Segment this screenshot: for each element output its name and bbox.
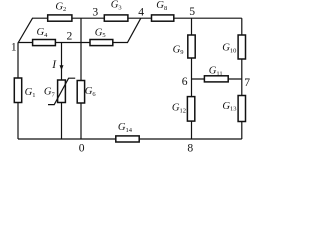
wire top bus (node 3 / 4 / 5 rail) bbox=[32, 17, 242, 19]
svg-text:3: 3 bbox=[92, 6, 98, 19]
svg-text:6: 6 bbox=[182, 75, 188, 88]
resistor G10 bbox=[238, 35, 245, 59]
current arrow I head bbox=[60, 65, 64, 70]
wire I branch vertical through G7 bbox=[61, 43, 63, 140]
resistor G3 bbox=[104, 15, 128, 21]
wire right vertical through G10, node 7, G13 bbox=[241, 18, 243, 139]
svg-text:1: 1 bbox=[11, 40, 17, 53]
wire diagonal G5 to node 4 bbox=[128, 18, 141, 42]
svg-text:0: 0 bbox=[79, 142, 85, 155]
svg-text:8: 8 bbox=[187, 141, 193, 154]
wire bottom bus node 0 to node 8 bbox=[18, 138, 242, 140]
resistor G6 bbox=[77, 81, 84, 104]
resistor G11 bbox=[204, 76, 228, 82]
resistor G13 bbox=[238, 96, 245, 122]
svg-text:2: 2 bbox=[67, 29, 73, 42]
resistor G4 bbox=[33, 40, 56, 46]
wire diagonal node 1 to top rail bbox=[18, 18, 33, 43]
svg-text:4: 4 bbox=[138, 6, 144, 19]
resistor G14 bbox=[116, 136, 139, 142]
resistor G1 bbox=[14, 78, 21, 103]
resistor G5 bbox=[90, 40, 113, 46]
wire node 1 to node 2 row bbox=[18, 42, 128, 44]
variable-resistor stroke through G7 bbox=[48, 78, 75, 104]
wire left branch vertical through G1 bbox=[17, 43, 19, 140]
wire node 6 to node 7 bbox=[192, 78, 242, 80]
resistor G12 bbox=[187, 97, 194, 122]
resistor G8 bbox=[152, 15, 174, 21]
wire middle vertical through G6 to node 0 bbox=[80, 18, 82, 139]
resistor G9 bbox=[188, 35, 195, 58]
wire node 5 vertical through G9, node 6, G12 to node 8 bbox=[191, 18, 193, 139]
resistor G2 bbox=[48, 15, 72, 21]
svg-text:5: 5 bbox=[189, 5, 195, 18]
resistor G7 (variable) bbox=[58, 80, 66, 103]
svg-text:7: 7 bbox=[244, 76, 250, 89]
